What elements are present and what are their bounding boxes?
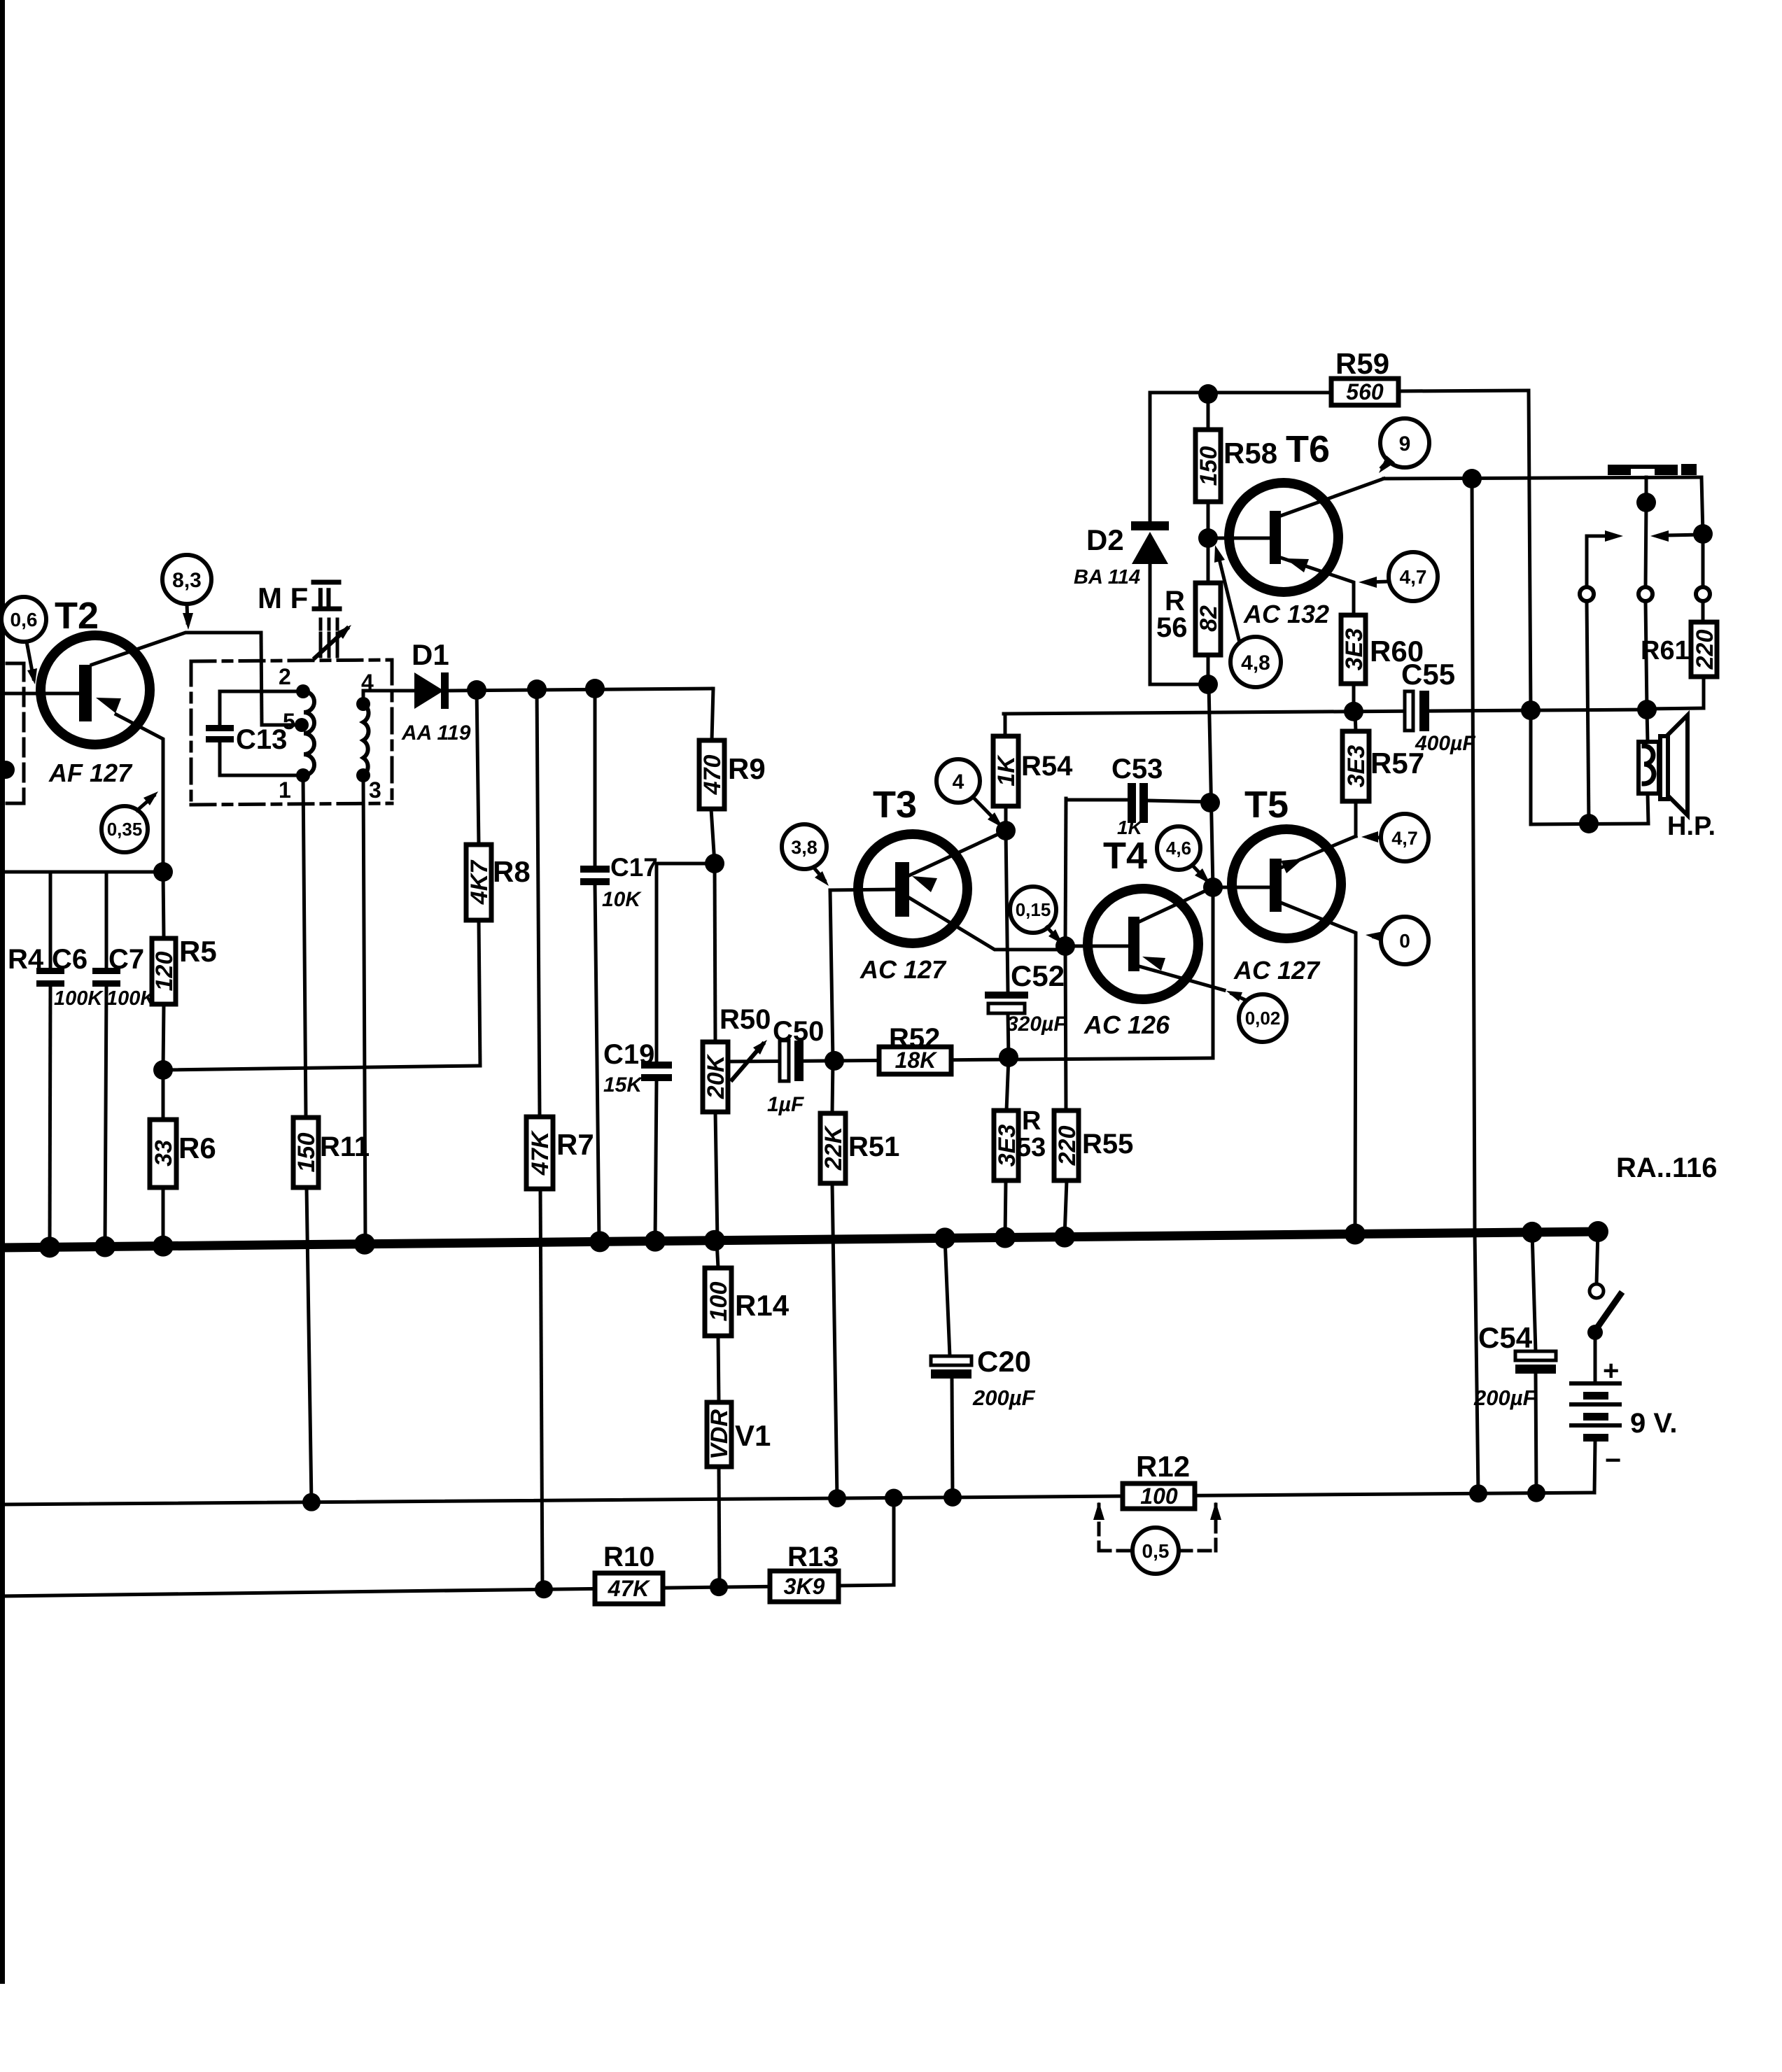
svg-text:+: + <box>1603 1355 1619 1386</box>
svg-text:T2: T2 <box>55 595 99 637</box>
svg-text:R58: R58 <box>1223 437 1277 470</box>
svg-text:R7: R7 <box>556 1128 594 1161</box>
svg-text:AC 126: AC 126 <box>1083 1010 1170 1039</box>
svg-text:R8: R8 <box>493 855 531 888</box>
svg-text:1K: 1K <box>993 754 1020 787</box>
svg-text:AA 119: AA 119 <box>401 721 471 745</box>
svg-text:20K: 20K <box>703 1053 729 1099</box>
svg-text:53: 53 <box>1016 1133 1046 1162</box>
svg-text:R14: R14 <box>735 1289 790 1322</box>
svg-text:AC 127: AC 127 <box>860 955 947 984</box>
svg-text:R55: R55 <box>1082 1129 1133 1160</box>
svg-text:470: 470 <box>699 755 726 796</box>
svg-text:1µF: 1µF <box>767 1093 804 1116</box>
svg-text:220: 220 <box>1054 1126 1081 1167</box>
svg-text:H.P.: H.P. <box>1667 812 1716 841</box>
svg-text:15K: 15K <box>603 1073 643 1097</box>
svg-text:100: 100 <box>1140 1483 1178 1509</box>
svg-text:200µF: 200µF <box>1473 1386 1537 1410</box>
svg-text:3K9: 3K9 <box>784 1574 825 1599</box>
svg-text:2: 2 <box>279 664 291 689</box>
svg-text:22K: 22K <box>820 1125 847 1171</box>
svg-text:560: 560 <box>1346 379 1384 404</box>
svg-text:0,6: 0,6 <box>10 609 38 630</box>
svg-text:100K: 100K <box>54 987 104 1010</box>
svg-text:1: 1 <box>279 777 291 803</box>
svg-text:C17: C17 <box>610 853 658 882</box>
svg-text:200µF: 200µF <box>972 1386 1036 1410</box>
svg-text:3,8: 3,8 <box>791 837 818 858</box>
svg-text:T4: T4 <box>1103 835 1147 877</box>
svg-text:5: 5 <box>283 709 295 734</box>
svg-text:R57: R57 <box>1370 747 1424 780</box>
svg-text:0,5: 0,5 <box>1142 1540 1170 1562</box>
svg-text:9 V.: 9 V. <box>1630 1408 1677 1439</box>
svg-text:4: 4 <box>953 770 964 794</box>
svg-text:R12: R12 <box>1136 1450 1190 1483</box>
svg-text:R50: R50 <box>720 1004 771 1035</box>
svg-text:220: 220 <box>1692 630 1718 670</box>
svg-text:AC 132: AC 132 <box>1243 600 1329 628</box>
svg-text:10K: 10K <box>602 888 642 911</box>
svg-text:T5: T5 <box>1244 784 1289 826</box>
svg-text:100K: 100K <box>106 987 156 1010</box>
svg-text:R11: R11 <box>320 1132 370 1162</box>
svg-text:0: 0 <box>1399 930 1410 952</box>
svg-text:150: 150 <box>293 1133 320 1173</box>
svg-text:R4: R4 <box>8 944 44 975</box>
svg-text:120: 120 <box>151 952 178 992</box>
svg-text:C20: C20 <box>977 1345 1031 1378</box>
svg-text:C52: C52 <box>1011 959 1065 992</box>
svg-text:R60: R60 <box>1370 635 1424 668</box>
svg-text:T3: T3 <box>873 784 917 826</box>
svg-text:C50: C50 <box>773 1016 824 1047</box>
svg-text:−: − <box>1605 1445 1621 1476</box>
svg-text:0,02: 0,02 <box>1245 1008 1281 1029</box>
svg-text:4,8: 4,8 <box>1241 651 1270 675</box>
svg-text:0,15: 0,15 <box>1016 899 1051 920</box>
svg-text:AC 127: AC 127 <box>1233 956 1321 985</box>
svg-text:R13: R13 <box>787 1542 839 1572</box>
svg-text:47K: 47K <box>608 1576 652 1601</box>
svg-text:4,7: 4,7 <box>1400 566 1427 588</box>
svg-text:9: 9 <box>1399 432 1411 456</box>
svg-text:R54: R54 <box>1021 751 1073 782</box>
svg-text:4,6: 4,6 <box>1166 838 1191 859</box>
svg-text:C54: C54 <box>1478 1321 1533 1354</box>
svg-text:R10: R10 <box>603 1542 654 1572</box>
svg-text:4K7: 4K7 <box>466 859 493 905</box>
svg-text:T6: T6 <box>1286 428 1330 470</box>
svg-text:R52: R52 <box>889 1023 940 1054</box>
svg-text:0,35: 0,35 <box>107 819 143 840</box>
svg-text:8,3: 8,3 <box>172 569 202 592</box>
svg-text:R6: R6 <box>178 1132 216 1164</box>
svg-text:D1: D1 <box>412 638 449 671</box>
svg-text:R59: R59 <box>1335 347 1389 380</box>
svg-text:R51: R51 <box>848 1132 899 1162</box>
svg-text:33: 33 <box>150 1140 177 1167</box>
svg-text:V1: V1 <box>735 1419 771 1452</box>
svg-text:R9: R9 <box>728 752 766 785</box>
svg-text:R61: R61 <box>1641 636 1690 665</box>
svg-text:4,7: 4,7 <box>1391 828 1418 849</box>
svg-text:56: 56 <box>1156 612 1188 643</box>
svg-text:3E3: 3E3 <box>1343 745 1370 788</box>
svg-text:C13: C13 <box>236 724 287 755</box>
svg-text:RA..116: RA..116 <box>1616 1153 1718 1183</box>
svg-text:AF 127: AF 127 <box>48 759 133 787</box>
svg-text:BA 114: BA 114 <box>1074 566 1140 589</box>
svg-text:3E3: 3E3 <box>1341 628 1368 671</box>
svg-text:C6: C6 <box>52 944 87 975</box>
svg-text:3: 3 <box>369 777 381 803</box>
svg-text:100: 100 <box>706 1282 732 1322</box>
svg-text:C7: C7 <box>108 944 144 975</box>
svg-text:150: 150 <box>1195 446 1222 486</box>
svg-text:R: R <box>1022 1106 1041 1136</box>
svg-text:C53: C53 <box>1111 754 1163 784</box>
svg-text:C19: C19 <box>603 1039 654 1070</box>
svg-text:47K: 47K <box>527 1129 554 1176</box>
svg-text:VDR: VDR <box>706 1409 733 1460</box>
svg-text:R5: R5 <box>179 935 217 968</box>
svg-text:320µF: 320µF <box>1006 1013 1067 1036</box>
svg-text:D2: D2 <box>1086 523 1124 556</box>
svg-text:82: 82 <box>1195 605 1222 632</box>
